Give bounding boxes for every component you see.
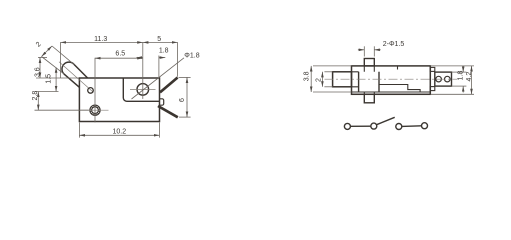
terminal 2 [371,123,377,129]
svg-text:2: 2 [316,78,323,82]
svg-text:10.2: 10.2 [112,128,126,135]
dim 2-phi1.5 ext [363,46,365,56]
big hole horizontal centerline [130,88,156,90]
dim 3.6 [39,57,41,78]
extension lines [60,42,62,78]
dim 2.8 [37,92,39,111]
terminal 3 [396,124,402,130]
terminal 1 [344,123,350,129]
dim 11.3 [61,41,143,43]
wire terminal3-terminal4 [402,125,422,128]
cylinder dia 2: dim line [42,46,53,57]
lower contact flap [158,106,178,117]
end contact piece [435,72,452,86]
right-side tab [160,99,164,105]
svg-text:2: 2 [35,41,43,49]
ext lines 4.2 [430,65,474,67]
end piece holes [436,76,442,82]
svg-text:1.5: 1.5 [46,74,53,84]
ext lines 2 [324,71,332,73]
dim 6 [186,77,188,117]
svg-text:3.8: 3.8 [304,71,311,81]
switch lever SW1 (open contact) [377,117,395,124]
svg-text:6: 6 [179,98,186,102]
internal step lines [379,85,420,93]
body outline [79,78,159,122]
cylinder dia 2: extension lines [52,46,74,64]
svg-text:2.8: 2.8 [32,91,39,101]
inner contact block [359,72,379,92]
svg-text:1.8: 1.8 [457,71,464,81]
internal body bottom line [352,91,431,93]
dim 6.5 [95,57,143,59]
barrel edges into body [352,72,359,87]
svg-text:2-Φ1.5: 2-Φ1.5 [383,41,405,48]
cylinder end cap [62,62,74,74]
dim 1.8 (outside arrows) [462,66,464,72]
right tabs [430,67,435,71]
svg-text:6.5: 6.5 [115,51,125,58]
svg-text:11.3: 11.3 [94,36,107,43]
wire terminal1-terminal2 [350,125,371,127]
upper contact flap [160,78,178,93]
dim 2 [321,72,323,87]
knurled hole [90,105,100,115]
ext lines 3.8 [313,65,352,67]
cylinder axis centerline [59,62,94,93]
svg-text:Φ1.8: Φ1.8 [184,53,199,60]
bottom pin [364,94,374,103]
leader phi1.8 [132,58,185,99]
dim 1.8 (outside arrows) [136,57,142,59]
svg-text:1.8: 1.8 [159,48,169,55]
interior slot [123,78,159,101]
main body [352,66,431,94]
cylinder (angled bushing) upper edge [74,64,88,78]
cylinder lower edge [64,74,80,88]
dim 2-phi1.5 arrows [358,49,364,51]
knurled hole centerline [81,109,109,111]
small hole [88,88,94,94]
dim 3.8 [310,66,312,92]
dim 10.2 [79,134,159,136]
dim 4.2 [471,66,473,94]
svg-text:4.2: 4.2 [466,72,473,82]
top pin [364,59,374,66]
top notch tick [397,66,399,70]
ext lines 1.8 [452,71,467,73]
base line [352,93,431,95]
centerline [325,78,458,80]
terminal 4 [422,123,428,129]
dim 5 [143,41,178,43]
dim 1.5 (outside arrows pointing inward) [55,67,57,79]
svg-text:5: 5 [157,36,161,43]
big hole phi1.8 [137,84,149,96]
svg-text:3.6: 3.6 [35,67,42,77]
barrel [333,72,352,87]
